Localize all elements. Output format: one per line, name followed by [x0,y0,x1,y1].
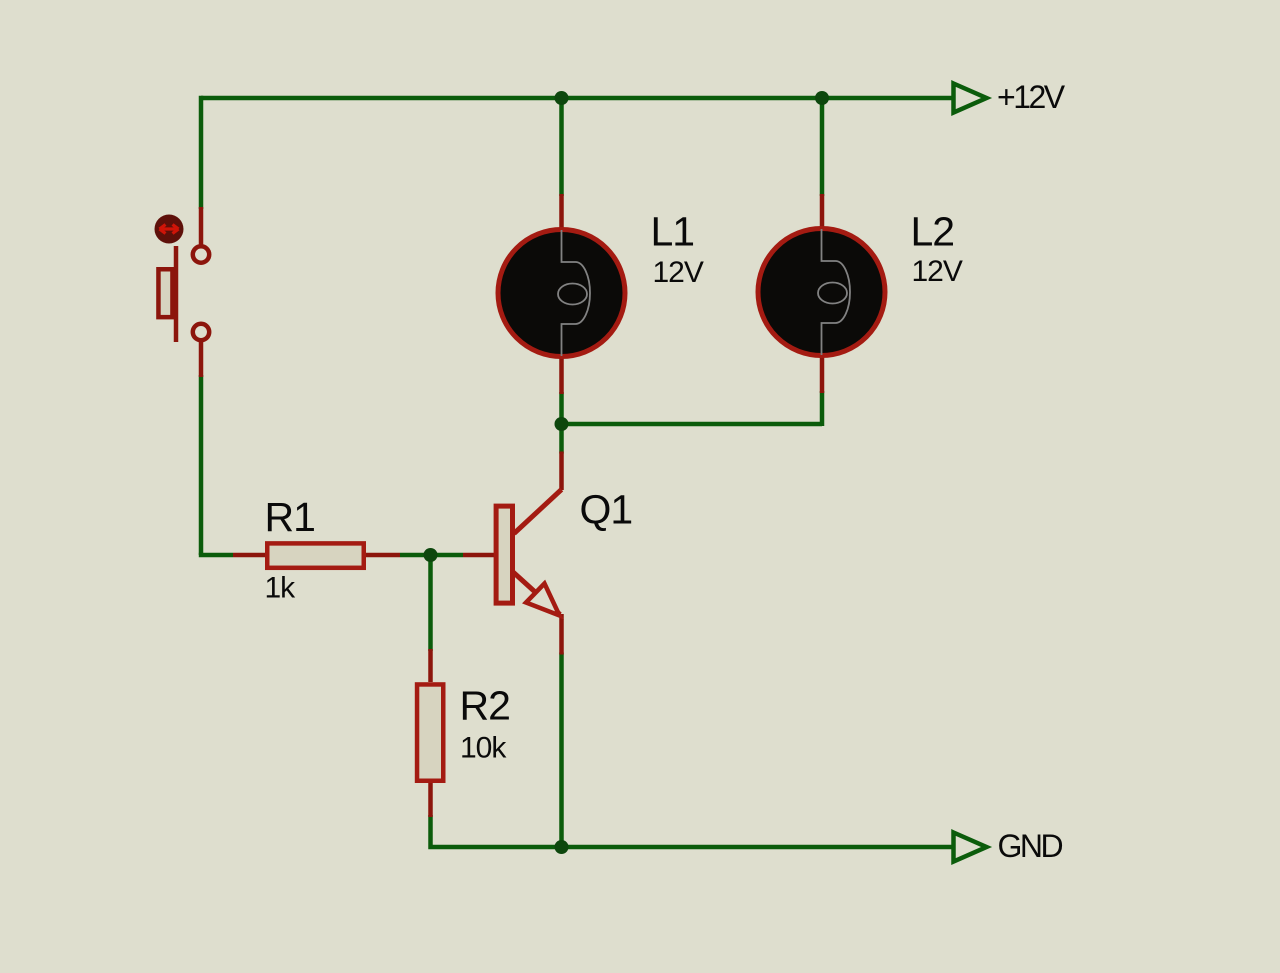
resistor R2 [417,684,443,780]
wire L1 bottom to lamp rail [559,392,564,424]
junction dot at collector lamp rail [555,417,569,431]
svg-text:1k: 1k [265,572,297,605]
svg-text:Q1: Q1 [580,487,633,533]
resistor R1 pins [233,553,400,558]
transistor Q1 base pin [463,553,494,558]
transistor Q1 body [496,490,561,616]
svg-text:+12V: +12V [997,79,1066,115]
svg-text:R1: R1 [265,494,315,540]
wire R1 horizontal left segment [199,553,233,558]
resistor R1 [267,543,364,567]
wire ground rail to GND terminal [562,845,953,850]
resistor R2 pins [428,649,433,817]
wire top rail +12V [201,96,953,101]
wire L1 top to +12V rail [559,96,564,196]
wire base junction down to R2 [428,555,433,651]
junction dot at ground rail [555,840,569,854]
transistor Q1 emitter pin [559,614,564,655]
lamp L1 [498,230,625,357]
wire R2 bottom to ground rail corner [431,815,563,847]
switch bar [174,246,179,342]
switch top pin [199,207,204,245]
svg-text:R2: R2 [460,683,510,729]
terminal GND [954,833,987,862]
wire R1 right to base junction [400,553,463,558]
switch top contact [193,246,209,262]
lamp L2 [758,229,885,356]
switch bottom pin [199,342,204,378]
terminal +12V [954,84,987,113]
transistor Q1 collector pin [559,452,564,491]
lamp L2 pins [820,194,825,393]
junction dot at base R2 node [424,548,438,562]
wire switch bottom to R1 corner [199,375,204,555]
junction dot at L2 top rail [815,91,829,105]
svg-text:12V: 12V [653,256,704,289]
wire collector to lamp rail junction [559,424,564,454]
svg-text:L1: L1 [651,209,695,255]
svg-text:L2: L2 [911,209,955,255]
wire L2 top to +12V rail [820,96,825,196]
wire left vertical from top rail to switch [199,96,204,209]
lamp L1 pins [559,194,564,394]
wire emitter down to ground rail [559,653,564,850]
wire L2 bottom to lamp rail [820,391,825,426]
switch actuator [155,215,184,244]
svg-text:10k: 10k [460,732,507,765]
wire lamp bottom rail [562,422,822,427]
switch bottom contact [193,324,209,340]
svg-text:12V: 12V [912,255,963,288]
switch plunger [158,269,172,317]
junction dot at L1 top rail [555,91,569,105]
svg-text:GND: GND [998,828,1063,864]
